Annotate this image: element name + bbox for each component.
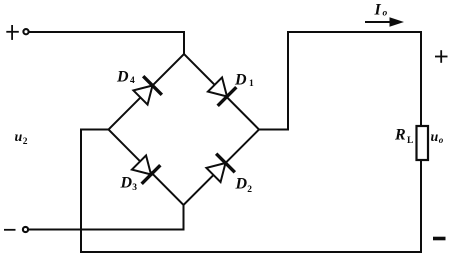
svg-text:D: D: [234, 71, 247, 88]
svg-text:u: u: [15, 130, 23, 145]
svg-text:2: 2: [23, 137, 28, 147]
svg-text:4: 4: [130, 76, 135, 86]
svg-text:3: 3: [132, 183, 137, 193]
svg-text:o: o: [383, 9, 388, 19]
svg-text:o: o: [439, 135, 444, 145]
svg-text:R: R: [394, 127, 406, 144]
svg-text:u: u: [431, 130, 439, 145]
svg-text:D: D: [116, 68, 129, 85]
svg-text:L: L: [407, 136, 413, 146]
svg-text:1: 1: [249, 79, 254, 89]
svg-text:D: D: [120, 175, 133, 192]
svg-text:D: D: [235, 176, 248, 193]
svg-text:I: I: [374, 1, 382, 18]
svg-text:2: 2: [247, 185, 252, 195]
